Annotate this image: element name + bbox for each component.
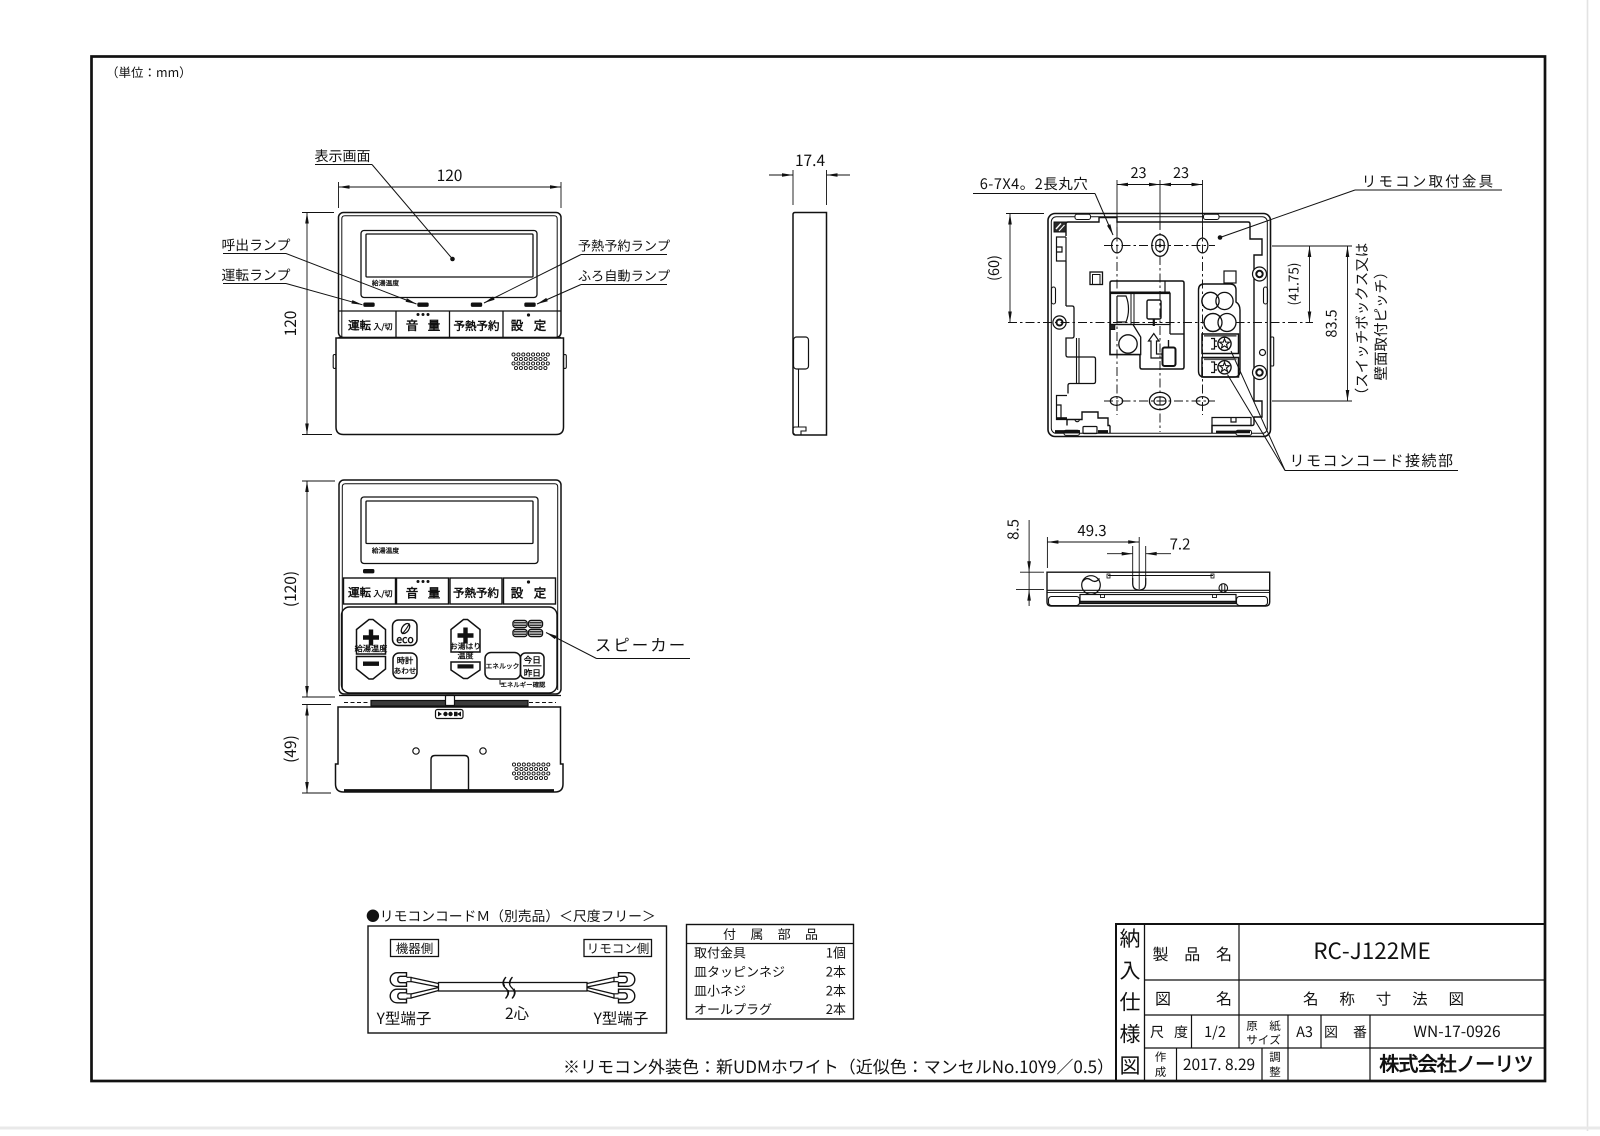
plate left-bottom cutout bbox=[1066, 306, 1096, 394]
bottom dark band segments bbox=[1055, 430, 1080, 433]
svg-text:RC-J122ME: RC-J122ME bbox=[1313, 934, 1430, 966]
svg-text:入/切: 入/切 bbox=[372, 322, 392, 333]
terminal assembly outline bbox=[1199, 284, 1241, 377]
small square above screws bbox=[1224, 271, 1236, 283]
left flange ring bbox=[1053, 316, 1066, 329]
button エネルック bbox=[485, 653, 521, 680]
svg-text:WN-17-0926: WN-17-0926 bbox=[1413, 1020, 1500, 1042]
svg-text:ふろ自動ランプ: ふろ自動ランプ bbox=[578, 266, 670, 285]
svg-text:(120): (120) bbox=[279, 571, 301, 607]
view1 cover (closed) bbox=[336, 338, 564, 435]
central bracket cluster bbox=[1110, 281, 1184, 369]
svg-text:給湯温度: 給湯温度 bbox=[354, 643, 389, 655]
side dim 17.4 bbox=[792, 170, 794, 205]
svg-text:設: 設 bbox=[511, 583, 524, 602]
title rows bbox=[1145, 979, 1546, 981]
side view bottom notch bbox=[793, 427, 806, 435]
svg-text:音: 音 bbox=[406, 315, 419, 334]
button お湯はり温度 +/- bbox=[451, 620, 480, 653]
button 給湯温度 +/- bbox=[357, 620, 386, 655]
cluster notch dark bbox=[1110, 325, 1115, 330]
back body outer bbox=[1048, 214, 1271, 437]
cord box bbox=[368, 926, 667, 1033]
plate left bracket bbox=[1057, 237, 1067, 261]
svg-text:図: 図 bbox=[1120, 1050, 1141, 1080]
back dim 23+23 bbox=[1116, 180, 1118, 238]
svg-text:A3: A3 bbox=[1296, 1021, 1313, 1042]
cluster plug bbox=[1163, 348, 1176, 367]
svg-text:皿タッピンネジ: 皿タッピンネジ bbox=[694, 962, 785, 981]
back bottom edge slots bbox=[1064, 430, 1080, 435]
svg-text:23: 23 bbox=[1130, 162, 1146, 183]
svg-text:量: 量 bbox=[428, 315, 441, 334]
svg-text:納: 納 bbox=[1120, 923, 1141, 953]
button 今日/昨日 bbox=[521, 653, 545, 679]
svg-text:Y型端子: Y型端子 bbox=[376, 1007, 432, 1029]
cover speaker grille bbox=[512, 763, 515, 766]
cluster up arrow bbox=[1149, 334, 1163, 359]
label エネルギー確認 bbox=[500, 680, 504, 684]
svg-text:呼出ランプ: 呼出ランプ bbox=[222, 234, 291, 254]
svg-text:6-7X4。2長丸穴: 6-7X4。2長丸穴 bbox=[980, 173, 1089, 194]
bottom plate edge-on bbox=[1080, 595, 1236, 604]
bottom recess line bbox=[1108, 575, 1213, 577]
svg-text:2017. 8.29: 2017. 8.29 bbox=[1183, 1053, 1255, 1075]
svg-text:（単位：mm）: （単位：mm） bbox=[106, 62, 192, 81]
svg-text:株式会社ノーリツ: 株式会社ノーリツ bbox=[1379, 1048, 1533, 1077]
bottom screw circle bbox=[1082, 576, 1101, 595]
bottom feet bbox=[1049, 597, 1080, 606]
svg-text:49.3: 49.3 bbox=[1077, 520, 1106, 541]
button eco bbox=[393, 620, 418, 646]
view2 lamp bbox=[364, 570, 374, 573]
row4 cells bbox=[1176, 1048, 1178, 1081]
svg-text:運転: 運転 bbox=[348, 318, 371, 334]
svg-text:17.4: 17.4 bbox=[795, 149, 826, 171]
svg-text:設: 設 bbox=[511, 315, 524, 334]
small square left-center bbox=[1090, 272, 1103, 285]
svg-text:仕: 仕 bbox=[1120, 987, 1141, 1017]
svg-text:運転ランプ: 運転ランプ bbox=[222, 264, 291, 284]
svg-text:入: 入 bbox=[1120, 955, 1141, 985]
view2 speaker bbox=[513, 621, 527, 628]
bottom center tab bbox=[1083, 427, 1097, 434]
view2 hinge bbox=[339, 695, 561, 697]
view1 button row bbox=[339, 310, 562, 312]
bottom row mounting holes bbox=[1110, 397, 1122, 406]
svg-text:予熱予約: 予熱予約 bbox=[454, 318, 500, 334]
bottom cord clamp bbox=[1219, 584, 1228, 593]
cluster small relay bbox=[1147, 300, 1161, 319]
cable body bbox=[439, 983, 588, 992]
view2 body bbox=[339, 480, 561, 694]
svg-text:2本: 2本 bbox=[826, 962, 846, 981]
svg-text:1個: 1個 bbox=[826, 943, 846, 962]
svg-text:※リモコン外装色：新UDMホワイト（近似色：マンセルNo.1: ※リモコン外装色：新UDMホワイト（近似色：マンセルNo.10Y9／0.5） bbox=[563, 1053, 1114, 1078]
svg-text:製品名: 製品名 bbox=[1153, 941, 1233, 965]
svg-text:昨日: 昨日 bbox=[524, 667, 541, 679]
view1 lamps bbox=[364, 303, 374, 306]
back dim 83.5 bbox=[1272, 400, 1352, 402]
svg-text:皿小ネジ: 皿小ネジ bbox=[694, 981, 746, 1000]
view2 dim (120) bbox=[302, 480, 335, 482]
back top edge slots bbox=[1075, 214, 1091, 219]
svg-text:リモコンコード接続部: リモコンコード接続部 bbox=[1289, 450, 1454, 471]
back mounting plate outline bbox=[1066, 218, 1262, 434]
svg-text:表示画面: 表示画面 bbox=[315, 146, 371, 166]
right flange rings bbox=[1253, 267, 1267, 281]
svg-text:Y型端子: Y型端子 bbox=[593, 1007, 649, 1029]
svg-text:(60): (60) bbox=[983, 255, 1004, 281]
svg-text:温度: 温度 bbox=[458, 651, 475, 662]
view1 display bezel bbox=[361, 231, 537, 298]
svg-text:取付金具: 取付金具 bbox=[694, 943, 746, 962]
view1 side tabs bbox=[333, 355, 336, 369]
cluster chamfer + circle bbox=[1110, 325, 1141, 355]
cluster lens part bbox=[1111, 294, 1171, 325]
svg-text:2心: 2心 bbox=[505, 1002, 530, 1024]
bottom right step bbox=[1212, 418, 1251, 434]
svg-text:定: 定 bbox=[534, 583, 547, 602]
svg-text:スピーカー: スピーカー bbox=[595, 632, 688, 656]
back view centerlines bbox=[1116, 227, 1118, 415]
side view clip tab bbox=[794, 337, 809, 369]
view2 lower panel bbox=[342, 607, 558, 693]
bottom cord slot (U) bbox=[1133, 578, 1146, 590]
title col 納入仕様図 bbox=[1144, 924, 1146, 1081]
view1 dim 120 horizontal bbox=[338, 182, 340, 208]
bottom dim 49.3 bbox=[1046, 537, 1048, 568]
back body inner edge bbox=[1051, 217, 1267, 433]
svg-text:壁面取付ピッチ）: 壁面取付ピッチ） bbox=[1370, 265, 1391, 381]
svg-text:（スイッチボックス又は: （スイッチボックス又は bbox=[1351, 243, 1372, 403]
svg-text:運転: 運転 bbox=[348, 585, 371, 601]
bottom dim 7.2 bbox=[1132, 546, 1134, 578]
svg-text:120: 120 bbox=[437, 164, 463, 186]
page edge shadow lines bbox=[1587, 0, 1589, 1131]
svg-text:83.5: 83.5 bbox=[1321, 309, 1342, 337]
view1 body upper bbox=[339, 213, 562, 338]
svg-text:予熱予約ランプ: 予熱予約ランプ bbox=[578, 236, 670, 255]
view2 display bezel bbox=[361, 497, 538, 564]
svg-text:今日: 今日 bbox=[523, 654, 541, 666]
label リモコン側 bbox=[584, 940, 652, 957]
top row mounting holes bbox=[1112, 238, 1123, 253]
Y terminals left bbox=[390, 973, 406, 987]
svg-text:1/2: 1/2 bbox=[1204, 1021, 1226, 1042]
plate bottom-left step bbox=[1057, 396, 1068, 420]
row1 製品名 bbox=[1238, 924, 1240, 1015]
svg-text:120: 120 bbox=[279, 311, 301, 337]
svg-text:リモコン側: リモコン側 bbox=[587, 938, 650, 957]
svg-text:サイズ: サイズ bbox=[1246, 1032, 1281, 1048]
side view body bbox=[793, 213, 827, 436]
svg-text:定: 定 bbox=[534, 315, 547, 334]
back dim (41.75) bbox=[1272, 245, 1352, 247]
right wall tab bbox=[1264, 287, 1268, 304]
right outside tab bbox=[1271, 337, 1274, 366]
row3 scale cells bbox=[1191, 1015, 1193, 1048]
button 時計あわせ bbox=[393, 653, 417, 679]
svg-text:2本: 2本 bbox=[826, 981, 846, 1000]
left wall tab bbox=[1052, 287, 1056, 304]
view2 display screen bbox=[366, 501, 533, 544]
svg-text:音: 音 bbox=[406, 583, 419, 602]
svg-text:23: 23 bbox=[1173, 162, 1189, 183]
svg-text:(41.75): (41.75) bbox=[1283, 263, 1303, 306]
svg-text:エネルック: エネルック bbox=[486, 661, 520, 671]
svg-text:調: 調 bbox=[1269, 1049, 1281, 1065]
svg-text:様: 様 bbox=[1120, 1018, 1141, 1048]
bottom dim 8.5 bbox=[1020, 571, 1044, 573]
svg-text:エネルギー確認: エネルギー確認 bbox=[501, 680, 546, 689]
svg-text:給湯温度: 給湯温度 bbox=[371, 278, 399, 288]
hatched square top-left bbox=[1054, 222, 1066, 232]
right lead wires bbox=[587, 978, 614, 999]
view2 button row bbox=[344, 578, 396, 604]
svg-text:(49): (49) bbox=[279, 735, 301, 763]
view1 speaker grille bbox=[512, 353, 515, 356]
right small circle bbox=[1260, 350, 1266, 356]
svg-text:リモコン取付金具: リモコン取付金具 bbox=[1362, 171, 1496, 192]
svg-text:eco: eco bbox=[396, 632, 414, 647]
svg-text:オールプラグ: オールプラグ bbox=[694, 999, 772, 1018]
Y terminals right bbox=[619, 973, 635, 987]
back dim (60) bbox=[1006, 213, 1044, 215]
view2 dim (49) bbox=[302, 704, 331, 706]
svg-text:7.2: 7.2 bbox=[1170, 534, 1191, 555]
svg-text:機器側: 機器側 bbox=[396, 938, 434, 957]
terminal figure-8 wire holes bbox=[1202, 292, 1219, 309]
cover center cutout bbox=[431, 756, 469, 793]
noritz logo plate on cover bbox=[436, 710, 464, 719]
break marks bbox=[504, 977, 516, 998]
svg-text:給湯温度: 給湯温度 bbox=[371, 545, 399, 555]
svg-text:あわせ: あわせ bbox=[394, 666, 417, 677]
bottom view body bbox=[1047, 572, 1270, 606]
svg-text:入/切: 入/切 bbox=[372, 589, 392, 600]
terminal screw blocks bbox=[1202, 334, 1239, 354]
svg-text:2本: 2本 bbox=[826, 999, 846, 1018]
svg-text:予熱予約: 予熱予約 bbox=[453, 585, 499, 601]
svg-text:整: 整 bbox=[1269, 1064, 1281, 1080]
svg-text:量: 量 bbox=[428, 583, 441, 602]
label 機器側 bbox=[391, 940, 439, 957]
svg-text:作: 作 bbox=[1155, 1049, 1167, 1065]
view2 open cover bbox=[336, 707, 564, 792]
svg-text:●リモコンコードＭ（別売品）＜尺度フリー＞: ●リモコンコードＭ（別売品）＜尺度フリー＞ bbox=[366, 905, 656, 925]
left lead wires bbox=[411, 978, 439, 999]
plate bottom bump bbox=[1075, 420, 1079, 422]
view1 display screen bbox=[366, 234, 533, 277]
svg-text:8.5: 8.5 bbox=[1003, 519, 1024, 540]
view1 dim 120 vertical bbox=[302, 212, 334, 214]
svg-text:成: 成 bbox=[1155, 1064, 1167, 1080]
plate left edge lower bbox=[1065, 261, 1067, 306]
cover screws bbox=[413, 748, 419, 754]
